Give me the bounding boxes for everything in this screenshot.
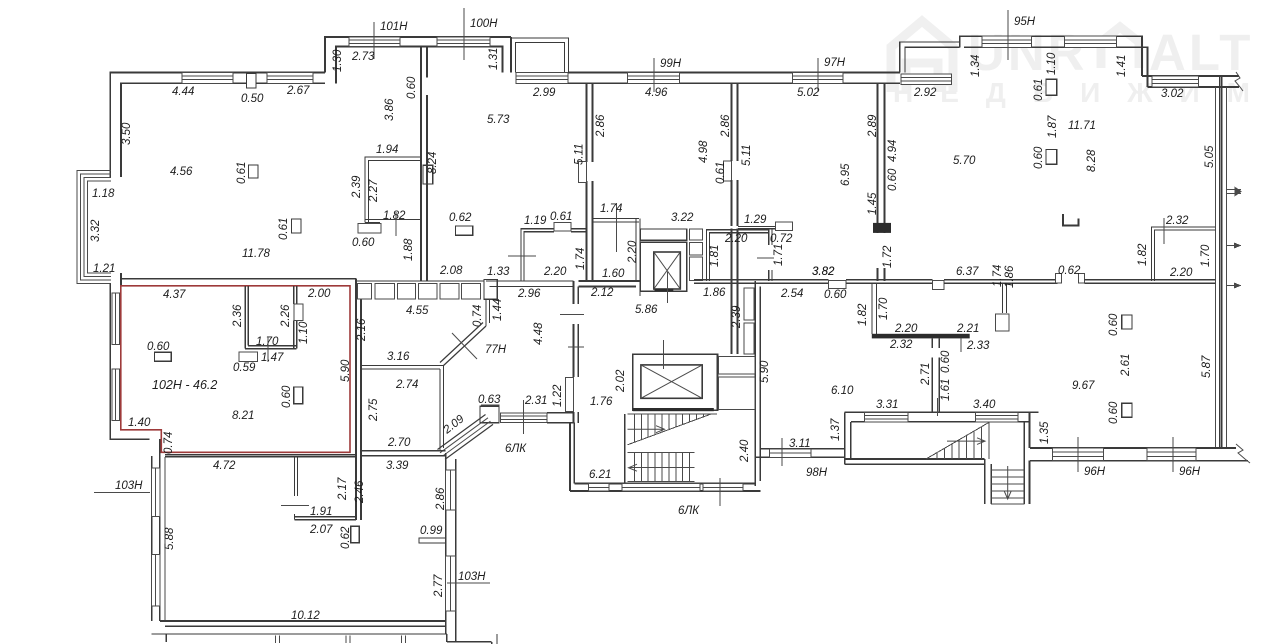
svg-text:11.78: 11.78 <box>242 248 271 260</box>
pillar 0.62 <box>456 226 473 235</box>
svg-text:3.22: 3.22 <box>671 212 694 224</box>
svg-text:0.60: 0.60 <box>887 168 899 191</box>
bay window 2.99 outline <box>512 38 569 73</box>
wall 4.72 under red <box>165 454 356 456</box>
svg-text:2.46: 2.46 <box>354 480 366 504</box>
svg-text:2.20: 2.20 <box>1169 267 1193 279</box>
svg-text:1.44: 1.44 <box>492 299 504 321</box>
svg-text:1.82: 1.82 <box>857 303 869 326</box>
pillar 0.60 right <box>1046 150 1057 165</box>
tick 98H <box>781 438 783 466</box>
svg-text:0.60: 0.60 <box>406 76 418 99</box>
door lintel black 97H <box>873 223 891 233</box>
wall y280 x846-932 <box>846 279 933 281</box>
svg-text:5.05: 5.05 <box>1204 145 1216 168</box>
tick 103H left <box>94 492 150 494</box>
window 3.02 <box>1152 76 1198 87</box>
tick 96Hb <box>1172 437 1174 472</box>
watermark UNREALT <box>891 21 1277 108</box>
bathroom door rect <box>294 304 303 321</box>
window 103H right b <box>446 556 456 611</box>
svg-text:6.21: 6.21 <box>589 469 611 481</box>
wall step down x502-511 and main band to right <box>510 37 512 73</box>
right core top wall <box>845 411 1039 413</box>
svg-text:2.02: 2.02 <box>615 369 627 393</box>
wall upper band 95H <box>960 36 1142 76</box>
left loggia nested outline <box>77 171 111 284</box>
svg-text:1.41: 1.41 <box>1116 55 1128 77</box>
svg-text:6ЛК: 6ЛК <box>678 505 700 517</box>
corridor right wall x440-444 <box>439 369 441 450</box>
shaft duct boxes right <box>689 229 702 240</box>
svg-text:2.77: 2.77 <box>433 574 445 598</box>
svg-text:1.47: 1.47 <box>261 352 284 364</box>
pillar 0.60 mid <box>294 387 303 404</box>
wall 1.29 <box>738 225 775 227</box>
svg-text:3.82: 3.82 <box>812 266 835 278</box>
svg-text:4.44: 4.44 <box>172 86 194 98</box>
bottom ticks <box>276 635 406 643</box>
svg-text:5.88: 5.88 <box>164 527 176 550</box>
svg-text:3.31: 3.31 <box>876 399 898 411</box>
svg-text:4.98: 4.98 <box>698 140 710 163</box>
elevator shaft top block <box>641 229 687 240</box>
svg-text:4.72: 4.72 <box>213 460 236 472</box>
room 6.10 upper partition x872-877 <box>871 283 873 334</box>
door 0.72 <box>775 222 792 230</box>
svg-text:1.19: 1.19 <box>524 215 547 227</box>
bottom wall 103H <box>160 620 446 622</box>
corridor 2.74 top wall <box>361 365 443 367</box>
svg-text:1.76: 1.76 <box>590 396 613 408</box>
tick 97H <box>817 58 819 92</box>
svg-text:8.21: 8.21 <box>232 410 254 422</box>
svg-text:6.10: 6.10 <box>831 385 854 397</box>
window core bottom a <box>589 484 610 492</box>
door arrow right 1 <box>1227 187 1242 197</box>
svg-text:2.31: 2.31 <box>524 395 547 407</box>
tick 2.32 <box>1163 218 1165 244</box>
tick door left wall 2.20 <box>508 255 536 257</box>
svg-text:2.36: 2.36 <box>232 304 244 328</box>
svg-text:1.18: 1.18 <box>92 188 115 200</box>
svg-text:100Н: 100Н <box>470 18 498 30</box>
svg-text:1.21: 1.21 <box>93 263 115 275</box>
svg-text:9.67: 9.67 <box>1072 380 1095 392</box>
svg-text:0.60: 0.60 <box>824 289 847 301</box>
svg-text:0.60: 0.60 <box>1108 401 1120 424</box>
svg-text:1.87: 1.87 <box>1047 115 1059 138</box>
pillar 0.50 <box>247 74 257 89</box>
tick 100H <box>463 8 465 60</box>
svg-text:3.32: 3.32 <box>90 219 102 242</box>
tick door inner room <box>281 505 309 507</box>
svg-text:1.82: 1.82 <box>1137 243 1149 266</box>
svg-text:1.74: 1.74 <box>992 265 1004 287</box>
tick 1.70 <box>267 337 269 362</box>
wall break squiggle top right <box>1235 72 1243 91</box>
svg-text:2.21: 2.21 <box>956 323 979 335</box>
window rect small <box>996 314 1010 331</box>
window W95b <box>1065 36 1117 47</box>
svg-text:0.61: 0.61 <box>550 211 572 223</box>
inner room walls 1.91 <box>294 458 296 496</box>
tick door 4.48 <box>560 313 584 315</box>
svg-text:0.60: 0.60 <box>281 385 293 408</box>
corridor wall segment x578-640 <box>578 280 640 282</box>
svg-text:1.45: 1.45 <box>867 192 879 215</box>
svg-text:5.70: 5.70 <box>953 155 976 167</box>
pillar 0.61 right <box>1046 79 1057 95</box>
svg-text:2.40: 2.40 <box>739 439 751 463</box>
black bar wall <box>872 334 970 339</box>
svg-text:6.95: 6.95 <box>840 163 852 186</box>
corner post 0.74 <box>484 280 497 300</box>
wall line above vent boxes <box>356 280 486 282</box>
svg-text:1.91: 1.91 <box>310 506 332 518</box>
svg-text:4.55: 4.55 <box>406 305 429 317</box>
window of bay 2.99 <box>516 73 568 84</box>
window W3 101H <box>349 37 400 47</box>
svg-text:2.73: 2.73 <box>351 51 375 63</box>
svg-text:1.72: 1.72 <box>882 245 894 268</box>
core2 lower flight walls <box>984 459 986 504</box>
svg-text:5.90: 5.90 <box>759 360 771 383</box>
wall right of red unit <box>355 279 357 520</box>
wall top right to break <box>1142 75 1239 77</box>
svg-text:2.20: 2.20 <box>627 240 639 264</box>
svg-text:ALT: ALT <box>1149 24 1253 81</box>
svg-text:2.75: 2.75 <box>368 398 380 422</box>
wall left of red unit <box>110 283 149 439</box>
door leaf 0.61 on x586 wall <box>579 162 587 183</box>
svg-text:0.62: 0.62 <box>449 212 472 224</box>
tick 96Ha <box>1077 437 1079 472</box>
svg-text:3.50: 3.50 <box>121 122 133 145</box>
svg-text:103Н: 103Н <box>458 571 486 583</box>
svg-text:1.60: 1.60 <box>602 268 625 280</box>
svg-text:2.07: 2.07 <box>309 524 333 536</box>
machine boxes right of elevator <box>718 357 755 375</box>
svg-text:96Н: 96Н <box>1179 466 1201 478</box>
window 103H right a <box>446 470 456 510</box>
svg-text:4.94: 4.94 <box>887 140 899 162</box>
core bottom wall <box>570 490 760 492</box>
wall divider x731-738 rooms 99H/97H <box>731 83 733 161</box>
core left wall <box>624 414 626 483</box>
door box mid 6.37 <box>932 280 944 289</box>
svg-text:1.30: 1.30 <box>332 49 344 72</box>
svg-text:1.35: 1.35 <box>1039 421 1051 444</box>
window W4 100H <box>437 37 490 47</box>
svg-text:5.87: 5.87 <box>1201 355 1213 378</box>
wall divider x586-593 rooms 5.73/99H <box>586 83 588 162</box>
wall break arrow bottom right <box>1236 444 1250 463</box>
svg-text:8.28: 8.28 <box>1086 149 1098 172</box>
tick 77H cross <box>452 333 477 359</box>
svg-text:2.86: 2.86 <box>435 487 447 511</box>
window W1 4.44 <box>182 73 233 84</box>
svg-text:2.39: 2.39 <box>731 305 743 329</box>
room 2.20-left walls <box>521 229 587 281</box>
closet room 1.94 walls <box>365 157 421 223</box>
svg-text:5.90: 5.90 <box>340 359 352 382</box>
window 98H <box>769 449 811 457</box>
tick 3.40 wall <box>936 398 938 416</box>
connector wall 3.11 <box>760 448 844 450</box>
tick 1.74 top <box>615 203 617 252</box>
window of bay 2.92 <box>901 74 952 85</box>
vestibule wall x570-574 <box>569 423 571 491</box>
window core bottom b <box>622 484 700 492</box>
svg-text:8.24: 8.24 <box>427 152 439 174</box>
window left red a <box>112 293 119 344</box>
corridor wall y280 x694-1216 <box>694 279 829 281</box>
svg-text:1.86: 1.86 <box>1004 265 1016 288</box>
wall main top band x568-900 <box>568 72 900 74</box>
window 96Ha <box>1052 448 1103 461</box>
svg-text:2.67: 2.67 <box>286 85 310 97</box>
svg-text:2.96: 2.96 <box>517 288 541 300</box>
svg-text:97Н: 97Н <box>824 57 846 69</box>
window core bottom c <box>703 484 743 492</box>
wall x573-578 rooms 4.48/core <box>573 281 575 304</box>
wall step up at x325 <box>325 37 511 73</box>
window W2 2.67 <box>267 73 313 84</box>
svg-text:2.61: 2.61 <box>1120 354 1132 377</box>
core2 stair upper flight <box>926 422 990 459</box>
wall divider x877-885 rooms 97H/5.70 <box>877 83 879 233</box>
window W95a <box>982 36 1031 47</box>
tick 2.31 <box>522 400 524 434</box>
svg-text:4.96: 4.96 <box>645 87 668 99</box>
svg-text:2.32: 2.32 <box>889 339 913 351</box>
svg-text:1.71: 1.71 <box>773 244 785 266</box>
room 2.20-right walls <box>707 230 769 281</box>
stub wall 0.99 <box>419 538 446 543</box>
wall right of room 1.60 <box>635 219 637 282</box>
pillar 0.61 b <box>292 219 302 233</box>
svg-text:3.02: 3.02 <box>1161 88 1184 100</box>
vent box row on corridor wall <box>358 284 372 300</box>
svg-text:1.29: 1.29 <box>744 214 767 226</box>
svg-text:0.72: 0.72 <box>770 233 793 245</box>
svg-text:103Н: 103Н <box>115 480 143 492</box>
svg-text:2.74: 2.74 <box>395 379 418 391</box>
corner room 2.32 walls <box>1152 227 1216 281</box>
bottom protrusion right <box>446 634 448 642</box>
svg-text:1.82: 1.82 <box>383 210 406 222</box>
wall room 1.60 top <box>593 218 640 220</box>
window 96Hb <box>1147 448 1196 461</box>
svg-text:6ЛК: 6ЛК <box>505 443 527 455</box>
svg-text:2.86: 2.86 <box>595 114 607 138</box>
svg-text:101Н: 101Н <box>380 21 408 33</box>
window 99H <box>628 73 680 84</box>
svg-text:4.56: 4.56 <box>170 166 193 178</box>
door 0.60 closet <box>358 224 381 233</box>
svg-text:1.61: 1.61 <box>940 379 952 401</box>
window 103H left a <box>152 468 160 516</box>
core2 bottom wall <box>845 458 985 460</box>
tick 99H <box>653 58 655 92</box>
window core2 a 3.31 <box>864 412 908 422</box>
window 103H left b <box>152 555 160 606</box>
svg-text:0.99: 0.99 <box>420 525 443 537</box>
wall y280 x944-1058 <box>944 279 1057 281</box>
chamfer wall 77H <box>443 326 486 366</box>
stairs upper flight <box>628 414 717 445</box>
svg-text:2.08: 2.08 <box>439 265 463 277</box>
svg-text:4.48: 4.48 <box>533 322 545 345</box>
wall top-left outer band <box>110 73 325 178</box>
svg-text:1.70: 1.70 <box>256 336 279 348</box>
door gap 0.62 jambs <box>1056 274 1062 284</box>
core2 left wall <box>844 412 846 464</box>
wall bottom right band 96H <box>1030 447 1236 449</box>
door leaf on wall x573 <box>566 378 574 412</box>
svg-text:0.60: 0.60 <box>1033 146 1045 169</box>
svg-text:1.40: 1.40 <box>128 417 151 429</box>
svg-text:1.70: 1.70 <box>1200 244 1212 267</box>
svg-text:98Н: 98Н <box>806 467 828 479</box>
svg-text:2.20: 2.20 <box>894 323 918 335</box>
wall right outer vertical <box>1215 87 1217 448</box>
svg-text:2.32: 2.32 <box>1165 215 1189 227</box>
svg-text:2.89: 2.89 <box>867 114 879 138</box>
svg-text:5.73: 5.73 <box>487 114 510 126</box>
svg-text:1.81: 1.81 <box>709 245 721 267</box>
svg-text:5.11: 5.11 <box>574 143 586 165</box>
wall 3.39 <box>361 450 446 452</box>
door 0.61 room 2.20-left <box>554 223 571 232</box>
svg-text:3.11: 3.11 <box>789 438 811 450</box>
closet rect 0.60 <box>155 352 172 361</box>
tick above elevator <box>662 340 664 369</box>
svg-text:3.86: 3.86 <box>384 98 396 121</box>
svg-text:3.40: 3.40 <box>973 399 996 411</box>
tick 95H <box>1007 10 1009 60</box>
svg-text:1.88: 1.88 <box>403 238 415 261</box>
svg-text:5.86: 5.86 <box>635 304 658 316</box>
svg-text:2.00: 2.00 <box>307 288 331 300</box>
svg-text:102Н - 46.2: 102Н - 46.2 <box>152 378 217 392</box>
svg-text:UNR: UNR <box>968 24 1088 81</box>
svg-text:2.16: 2.16 <box>356 318 368 342</box>
column L mark <box>1063 214 1079 226</box>
window 97H <box>792 73 842 84</box>
svg-text:2.26: 2.26 <box>280 304 292 328</box>
svg-text:2.99: 2.99 <box>532 87 556 99</box>
svg-text:0.50: 0.50 <box>241 93 264 105</box>
watermark house icon <box>891 21 953 92</box>
window core2 b 3.40 <box>976 412 1018 422</box>
svg-text:0.61: 0.61 <box>715 162 727 184</box>
wall top of red unit <box>121 278 356 280</box>
svg-text:77Н: 77Н <box>485 344 507 356</box>
svg-text:2.92: 2.92 <box>913 87 937 99</box>
svg-text:2.39: 2.39 <box>351 175 363 199</box>
entry corner post <box>480 406 499 422</box>
svg-text:2.86: 2.86 <box>720 114 732 138</box>
svg-text:96Н: 96Н <box>1084 466 1106 478</box>
svg-text:0.63: 0.63 <box>478 394 501 406</box>
svg-text:5.11: 5.11 <box>741 144 753 166</box>
left wall 103H <box>151 456 153 621</box>
right wall 103H <box>445 453 447 634</box>
svg-text:95Н: 95Н <box>1014 16 1036 28</box>
svg-text:1.10: 1.10 <box>298 321 310 344</box>
tick door right wall 2.20-right <box>757 257 774 259</box>
closet 0.60 9.67a <box>1122 315 1132 329</box>
duct stack right of 5.86 <box>744 288 754 320</box>
wall y280 x1084-1216 <box>1084 279 1215 281</box>
svg-text:2.17: 2.17 <box>337 477 349 501</box>
svg-text:2.71: 2.71 <box>920 363 932 386</box>
closet 0.60 9.67b <box>1122 403 1132 417</box>
elevator block lower outline <box>633 354 718 410</box>
entry window horizontal <box>500 413 547 423</box>
tick 6LK <box>719 478 721 506</box>
entry diagonal window <box>438 415 494 460</box>
bathroom walls <box>244 286 246 349</box>
svg-text:1.70: 1.70 <box>878 297 890 320</box>
svg-text:1.37: 1.37 <box>830 418 842 441</box>
svg-text:3.16: 3.16 <box>387 351 410 363</box>
svg-text:1.34: 1.34 <box>970 55 982 77</box>
pillar on wall x421 <box>423 165 433 184</box>
svg-text:1.74: 1.74 <box>600 203 622 215</box>
svg-text:2.20: 2.20 <box>543 266 567 278</box>
wall x755-760 core right <box>754 281 756 486</box>
svg-text:0.60: 0.60 <box>352 237 375 249</box>
svg-text:0.62: 0.62 <box>1058 265 1081 277</box>
svg-text:0.74: 0.74 <box>163 432 175 454</box>
svg-text:2.20: 2.20 <box>724 233 748 245</box>
pillar 0.61 a <box>249 165 259 178</box>
door box 0.60 corridor <box>829 280 846 288</box>
svg-text:2.12: 2.12 <box>590 287 614 299</box>
svg-text:3.39: 3.39 <box>386 460 409 472</box>
svg-text:0.61: 0.61 <box>278 218 290 240</box>
closet 0.62 bottom <box>351 526 359 543</box>
svg-text:2.33: 2.33 <box>966 340 990 352</box>
svg-text:99Н: 99Н <box>660 58 682 70</box>
tick 103H right <box>447 582 490 584</box>
svg-text:2.27: 2.27 <box>368 179 380 203</box>
small partition x1004 <box>1002 283 1004 313</box>
wall x731-738 lower part <box>731 229 733 355</box>
room 4.48 top wall 2.96 <box>486 280 574 282</box>
closet rect 0.59 <box>239 352 257 361</box>
elevator cab lower with X <box>641 365 702 398</box>
svg-text:1.31: 1.31 <box>488 48 500 70</box>
svg-text:6.37: 6.37 <box>956 266 979 278</box>
room 4.55 right wall <box>485 299 487 326</box>
svg-text:2.70: 2.70 <box>387 437 411 449</box>
svg-text:1.74: 1.74 <box>575 248 587 270</box>
bottom outer line <box>152 633 447 635</box>
svg-text:0.61: 0.61 <box>1033 79 1045 101</box>
svg-text:0.61: 0.61 <box>236 162 248 184</box>
svg-text:0.60: 0.60 <box>147 341 170 353</box>
elevator cab top with X <box>654 252 681 291</box>
svg-text:0.60: 0.60 <box>1108 313 1120 336</box>
tick 101H <box>373 22 375 59</box>
bay window 2.92 outline <box>900 42 960 73</box>
svg-text:0.60: 0.60 <box>940 350 952 373</box>
door leaf 0.61 on x731 wall <box>724 161 732 181</box>
